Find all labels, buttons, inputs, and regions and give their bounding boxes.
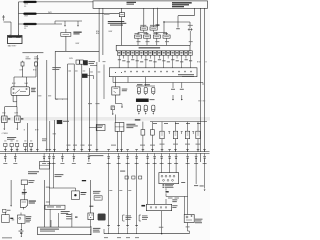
node arrow	[10, 218, 14, 221]
component dark box	[57, 120, 62, 124]
wire	[138, 30, 147, 35]
svg-text:B/W: B/W	[96, 33, 100, 35]
thermal transmitter box2	[18, 213, 26, 224]
label K3	[126, 124, 137, 128]
wire	[189, 31, 191, 46]
svg-text:4 TERM: 4 TERM	[2, 133, 9, 135]
wire	[156, 38, 158, 45]
label	[12, 83, 28, 85]
label row	[153, 122, 201, 125]
node dots	[115, 72, 122, 73]
thermal transmitter box1	[2, 212, 10, 222]
injector INJ4	[137, 105, 140, 113]
fuse F5	[76, 60, 79, 64]
fuse F12 small	[188, 25, 193, 31]
label injector bank	[137, 83, 150, 86]
wire	[54, 120, 56, 152]
label FL3	[24, 26, 28, 30]
label row2	[26, 57, 39, 60]
wire	[10, 22, 12, 36]
wire	[68, 63, 82, 65]
wire	[157, 8, 159, 27]
svg-text:B/W: B/W	[20, 69, 24, 71]
node battery positive terminal stub	[2, 15, 5, 21]
wire	[166, 196, 188, 214]
wire	[102, 8, 104, 55]
component box BR1	[146, 204, 171, 210]
wire	[14, 76, 36, 78]
label dark	[135, 119, 141, 120]
wiring diagram schematic	[0, 0, 210, 240]
label T1	[195, 219, 203, 224]
svg-text:B/W: B/W	[12, 83, 16, 85]
label joint connector	[178, 74, 194, 77]
wire	[3, 123, 5, 131]
wire	[36, 55, 38, 152]
label W/B	[53, 134, 57, 136]
ignition coil bar	[45, 205, 65, 209]
label to AT unit	[7, 137, 16, 140]
wire arrow	[66, 214, 77, 219]
ECU pin wires	[119, 55, 190, 68]
label	[2, 133, 9, 135]
label	[111, 144, 155, 147]
wire	[27, 123, 29, 152]
wire	[64, 21, 66, 27]
resistor R2	[173, 122, 177, 152]
svg-text:FL: FL	[24, 28, 26, 30]
label	[2, 112, 18, 114]
wire	[103, 61, 106, 99]
wire	[108, 228, 138, 234]
wire	[121, 17, 123, 46]
label	[137, 40, 193, 43]
component hatched	[111, 106, 115, 110]
connector row below band	[4, 156, 206, 159]
fuse row1 F10	[140, 27, 147, 30]
wire	[154, 30, 167, 35]
wire	[23, 61, 37, 62]
fuse row1 F11	[150, 27, 157, 30]
label	[29, 180, 35, 183]
wire	[204, 190, 206, 191]
svg-text:B/W: B/W	[2, 112, 6, 114]
label misc b	[109, 189, 131, 192]
label ECU pin labels	[118, 59, 192, 62]
node T marks	[168, 132, 194, 135]
wire	[136, 77, 155, 86]
ignition coil T1	[184, 215, 194, 223]
wire	[159, 211, 164, 234]
fuse F1	[21, 62, 24, 77]
label tick	[104, 13, 110, 16]
wire left rail	[10, 180, 12, 207]
svg-text:FL: FL	[24, 6, 26, 8]
wire	[13, 77, 15, 87]
connector CB1	[2, 116, 8, 123]
connector CB1 arrow	[8, 118, 10, 119]
fuse F2	[35, 62, 38, 77]
fuse F6	[80, 60, 83, 64]
wire	[113, 77, 203, 85]
wire	[153, 8, 155, 27]
injector INJ3	[152, 87, 155, 95]
label	[104, 236, 139, 239]
label 15A	[26, 55, 38, 58]
label bus	[89, 154, 103, 157]
wire	[178, 15, 194, 17]
wire	[143, 8, 145, 27]
label CE	[120, 170, 125, 173]
connector T marks at bus	[4, 149, 206, 152]
wire	[77, 21, 79, 27]
connector strip main harness bus line B	[0, 152, 210, 154]
label oxygen sensor	[29, 201, 36, 204]
label dark BW	[22, 192, 27, 194]
injector INJ2	[144, 87, 147, 95]
throttle sensor box	[96, 125, 105, 131]
wire	[138, 113, 154, 114]
label fuel pump relay	[122, 89, 128, 92]
fuse F3	[119, 13, 124, 17]
check connector X1	[72, 191, 80, 200]
label	[61, 211, 70, 214]
label FL2	[24, 16, 28, 18]
wire stub	[171, 83, 175, 101]
scan shading band	[0, 117, 210, 121]
label	[181, 182, 204, 186]
label ignition switch block	[172, 2, 192, 7]
wire	[44, 180, 50, 227]
fuse row2 F17	[163, 35, 170, 38]
injector INJ6	[152, 105, 155, 113]
label to AC relay	[28, 171, 39, 174]
svg-text:B/W: B/W	[69, 58, 73, 60]
wire	[51, 213, 72, 227]
label R1	[160, 143, 165, 146]
connector row C	[4, 141, 33, 152]
connector J1 pins	[124, 71, 192, 73]
wire	[65, 29, 67, 33]
wire	[5, 102, 17, 107]
label col	[88, 102, 100, 105]
resistor R6	[151, 122, 155, 152]
component D2	[82, 74, 87, 78]
wire	[65, 36, 67, 51]
wire	[118, 131, 122, 151]
wire	[16, 102, 18, 107]
connector CB2 arrow	[21, 118, 23, 119]
label	[66, 214, 72, 219]
label	[97, 126, 103, 129]
svg-text:B/W: B/W	[109, 31, 113, 33]
wire	[121, 104, 123, 108]
wire	[137, 38, 139, 45]
wire	[90, 220, 92, 236]
label block BR	[163, 184, 175, 188]
wire	[20, 223, 22, 230]
label FL1	[24, 4, 28, 8]
label FL4	[73, 32, 81, 35]
power transistor Q1	[88, 206, 94, 220]
label R4	[196, 143, 201, 146]
wire	[115, 77, 117, 87]
svg-text:B/W: B/W	[197, 62, 201, 64]
label block	[93, 191, 102, 200]
label EFI main relay	[31, 88, 36, 92]
label dark	[82, 180, 86, 181]
connector ECU pin row	[117, 51, 192, 55]
label wire colors mid	[68, 70, 85, 73]
wire	[55, 98, 67, 100]
label ticks	[107, 224, 138, 227]
fusible link FL1	[19, 1, 94, 3]
wire	[112, 110, 114, 115]
wire stub	[180, 83, 184, 101]
svg-text:W/R: W/R	[48, 12, 52, 14]
svg-text:B/W: B/W	[25, 83, 29, 85]
svg-text:W/R: W/R	[24, 16, 28, 18]
label B/W	[76, 43, 80, 45]
label	[168, 197, 179, 200]
wire	[98, 8, 100, 62]
label relay2	[55, 174, 64, 177]
label battery	[8, 44, 17, 47]
wire	[146, 38, 148, 45]
wire	[90, 65, 97, 67]
label	[109, 31, 113, 33]
label fuse row1	[140, 24, 156, 27]
wire	[89, 127, 96, 129]
wire	[55, 21, 82, 24]
component D1	[84, 61, 88, 66]
wire	[164, 21, 190, 23]
fusible link FL3	[19, 23, 63, 25]
wire right rail B	[204, 8, 206, 151]
label W/B	[156, 25, 160, 26]
wire	[115, 95, 117, 104]
label ignition text block	[108, 21, 127, 26]
component M1	[3, 209, 11, 212]
label	[42, 139, 47, 142]
label col2	[67, 144, 93, 147]
connector CB2	[15, 116, 21, 123]
relay sym B	[139, 215, 148, 221]
connector strip main harness bus line A	[0, 151, 210, 153]
wire	[166, 188, 169, 196]
label wire W/R	[48, 12, 52, 14]
wire	[73, 64, 75, 152]
wire bottom bus	[104, 229, 189, 234]
label misc a	[38, 95, 51, 98]
wire	[16, 123, 18, 131]
wire	[163, 21, 164, 33]
wire	[49, 209, 51, 227]
connector row below band pins	[5, 153, 204, 162]
label	[69, 58, 73, 60]
label	[81, 192, 87, 195]
wire	[166, 38, 168, 45]
label	[197, 62, 208, 64]
svg-text:B/W: B/W	[76, 43, 80, 45]
label D1	[89, 61, 96, 64]
fuse row2 F15	[144, 35, 151, 38]
wire	[16, 107, 18, 116]
wire	[46, 60, 48, 152]
label below band	[3, 162, 206, 165]
wire	[115, 115, 117, 123]
label thermal transmitter	[26, 216, 32, 222]
label	[127, 2, 137, 5]
label wire colors right	[198, 100, 205, 103]
label BR1	[172, 199, 177, 208]
wire	[109, 162, 155, 227]
label	[63, 120, 69, 123]
fuse row2 F16	[153, 35, 160, 38]
connector trio	[125, 176, 142, 179]
connector box sensor group	[159, 173, 179, 184]
wire	[121, 8, 123, 12]
relay K3	[115, 123, 124, 132]
oxygen sensor box	[20, 200, 27, 208]
relay sym A	[123, 215, 132, 221]
wire	[49, 162, 53, 205]
wire	[186, 223, 190, 232]
wire	[189, 22, 191, 28]
label R3	[185, 143, 190, 146]
wire	[96, 62, 98, 152]
wire	[87, 76, 93, 79]
distributor box	[38, 227, 91, 235]
wire	[150, 121, 207, 123]
label	[20, 69, 37, 71]
label	[2, 231, 24, 239]
wire	[4, 107, 6, 116]
component inline box	[40, 162, 50, 170]
fusible link block FL4	[61, 33, 71, 37]
svg-text:BATTERY: BATTERY	[8, 44, 17, 47]
svg-text:B/W: B/W	[15, 112, 19, 114]
resistor pack R0 dropping resistor	[136, 99, 148, 102]
label	[194, 184, 198, 187]
wire	[162, 159, 205, 196]
wire	[193, 8, 195, 15]
svg-text:B/W: B/W	[33, 69, 37, 71]
battery B1	[8, 34, 23, 43]
connector J1 joint strip	[109, 68, 197, 77]
label sensor gnd	[24, 129, 39, 131]
wire	[49, 121, 51, 152]
label CL relay	[52, 67, 61, 70]
label fuse row2	[135, 32, 169, 35]
component box BL1	[21, 180, 27, 185]
wire	[49, 188, 75, 191]
label dark WB	[141, 205, 145, 207]
fusible link FL2	[19, 13, 120, 15]
wire	[18, 2, 20, 36]
fuse row2 F14	[135, 35, 142, 38]
wire	[88, 68, 90, 152]
label dropping resistor	[150, 98, 155, 101]
label text row	[22, 51, 43, 54]
wire	[176, 16, 180, 29]
wire	[23, 207, 25, 209]
wire	[116, 103, 122, 105]
ECU U1 ECCS control unit	[116, 45, 190, 50]
wire	[4, 21, 12, 23]
wire	[23, 185, 26, 200]
resistor R5	[141, 122, 145, 152]
svg-text:B/W: B/W	[35, 129, 39, 131]
resistor R4	[196, 122, 200, 152]
wire	[12, 95, 14, 101]
label	[96, 31, 100, 35]
wire	[113, 82, 203, 84]
ground	[20, 232, 22, 237]
label R2	[173, 143, 178, 146]
injector INJ5	[144, 105, 147, 113]
wire	[90, 180, 92, 213]
wire	[25, 77, 27, 87]
label distributor	[40, 228, 100, 233]
label wires	[55, 99, 63, 101]
injector INJ1	[137, 87, 140, 95]
wire	[81, 64, 83, 151]
wire right rail A	[200, 8, 202, 162]
wire	[16, 95, 18, 101]
label Q1	[98, 214, 106, 221]
resistor R3	[185, 122, 189, 152]
relay K2 fuel pump relay	[112, 87, 120, 95]
relay K1 EFI main relay	[11, 87, 30, 96]
wire	[55, 50, 99, 52]
wire	[67, 64, 69, 152]
junction box main harness	[93, 1, 208, 8]
label ECU	[139, 47, 161, 48]
wire	[54, 51, 56, 99]
label wire colors mid2	[90, 71, 100, 74]
resistor R1	[160, 122, 164, 152]
